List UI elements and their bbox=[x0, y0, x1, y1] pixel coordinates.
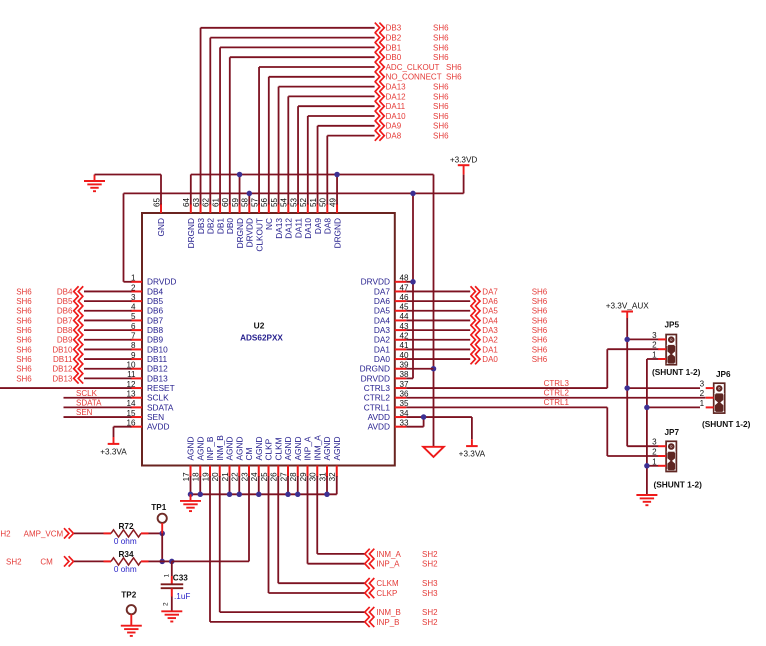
svg-text:DB2: DB2 bbox=[386, 34, 402, 43]
wire net CLKP horizontal run bbox=[269, 592, 365, 594]
svg-text:SH6: SH6 bbox=[433, 92, 449, 101]
wire AGND pin 18 drop bbox=[199, 476, 201, 494]
wire net DA11 vertical riser bbox=[297, 106, 299, 204]
svg-text:CM: CM bbox=[244, 448, 254, 461]
pin 19 (INP_B) bottom side bbox=[209, 466, 211, 478]
wire AGND pin 24 drop bbox=[258, 476, 260, 494]
svg-text:DA5: DA5 bbox=[374, 306, 391, 316]
node CLKP off-page chevron bbox=[365, 588, 375, 598]
ground (earth symbol below C33) bbox=[161, 610, 182, 612]
wire net DB2 vertical riser bbox=[209, 38, 211, 205]
wire net DB9 bbox=[84, 339, 132, 341]
svg-text:AMP_VCM: AMP_VCM bbox=[24, 529, 64, 538]
pin 9 (DB11) left side bbox=[131, 358, 143, 360]
svg-text:3: 3 bbox=[700, 380, 705, 389]
node NO_CONNECT off-page chevron bbox=[375, 72, 385, 82]
node DRVDD junction at rail bbox=[410, 191, 416, 197]
wire net DB10 bbox=[84, 348, 132, 350]
svg-text:25: 25 bbox=[260, 472, 269, 482]
node DRGND junction at pin49 bbox=[334, 172, 340, 178]
svg-text:DB0: DB0 bbox=[225, 218, 235, 235]
wire CM vertical to pin 23 bbox=[248, 476, 250, 561]
svg-text:2: 2 bbox=[652, 341, 657, 350]
svg-text:DA9: DA9 bbox=[386, 122, 402, 131]
ground (earth symbol below JP7) bbox=[636, 494, 657, 496]
capacitor C33 bbox=[171, 561, 173, 576]
svg-text:51: 51 bbox=[309, 197, 318, 207]
wire net CLKP vertical drop bbox=[268, 476, 270, 593]
wire net INM_A horizontal run bbox=[317, 553, 364, 555]
wire net DB11 bbox=[84, 358, 132, 360]
svg-text:R34: R34 bbox=[118, 550, 133, 559]
wire CM to pin 23 bbox=[172, 560, 249, 562]
svg-text:JP5: JP5 bbox=[665, 321, 680, 330]
pin 2 (DB4) left side bbox=[131, 290, 143, 292]
svg-text:AVDD: AVDD bbox=[147, 422, 169, 432]
pin 60 (DB0) top side bbox=[229, 204, 231, 214]
svg-text:DA13: DA13 bbox=[274, 218, 284, 239]
svg-text:SDATA: SDATA bbox=[76, 398, 102, 407]
resistor R72 bbox=[104, 532, 112, 534]
svg-text:DA3: DA3 bbox=[374, 325, 391, 335]
pin 58 (DRVDD) top side bbox=[248, 204, 250, 214]
svg-text:55: 55 bbox=[270, 197, 279, 207]
wire R34 to CM node bbox=[149, 560, 163, 562]
pin 25 (CLKP) bottom side bbox=[268, 466, 270, 478]
pin 32 (AGND) bottom side bbox=[336, 466, 338, 478]
node ADC_CLKOUT off-page chevron bbox=[375, 62, 385, 72]
svg-text:INP_B: INP_B bbox=[205, 436, 215, 460]
node DA5 off-page chevron bbox=[471, 306, 481, 316]
svg-text:DB0: DB0 bbox=[386, 53, 402, 62]
svg-text:DB6: DB6 bbox=[57, 307, 73, 316]
svg-text:CLKOUT: CLKOUT bbox=[254, 218, 264, 252]
svg-text:DB5: DB5 bbox=[57, 297, 73, 306]
svg-text:DRVDD: DRVDD bbox=[245, 218, 255, 247]
pin 39 (DRGND) right side bbox=[395, 368, 407, 370]
wire AVDD pin16 vertical to +3.3VA bbox=[113, 427, 115, 437]
svg-text:DB5: DB5 bbox=[147, 296, 164, 306]
power +3.3VA symbol (right) bbox=[471, 439, 473, 446]
pin 42 (DA2) right side bbox=[395, 339, 407, 341]
svg-text:CM: CM bbox=[40, 557, 53, 566]
svg-text:.1uF: .1uF bbox=[174, 592, 190, 601]
svg-text:DB6: DB6 bbox=[147, 306, 164, 316]
svg-text:SH2: SH2 bbox=[0, 529, 11, 538]
svg-text:AGND: AGND bbox=[293, 437, 303, 461]
svg-text:SH6: SH6 bbox=[433, 53, 449, 62]
svg-text:SH6: SH6 bbox=[433, 102, 449, 111]
svg-text:DA4: DA4 bbox=[482, 316, 498, 325]
pin 64 (DRGND) top side bbox=[190, 204, 192, 214]
wire DRGND top rail bbox=[191, 174, 434, 176]
svg-text:DB12: DB12 bbox=[147, 364, 168, 374]
pin 2 of JP5 bbox=[658, 348, 666, 350]
wire net DB5 bbox=[84, 300, 132, 302]
svg-text:AGND: AGND bbox=[283, 437, 293, 461]
svg-text:DA4: DA4 bbox=[374, 315, 391, 325]
svg-text:5: 5 bbox=[131, 312, 136, 321]
svg-text:DB4: DB4 bbox=[57, 287, 73, 296]
svg-text:DA12: DA12 bbox=[386, 92, 407, 101]
pin 29 (INP_A) bottom side bbox=[307, 466, 309, 478]
wire GND vertical JP5-JP7 bbox=[646, 359, 648, 494]
pin 1 of JP7 bbox=[658, 465, 666, 467]
svg-text:SH6: SH6 bbox=[532, 287, 548, 296]
node DRGND junction at pin59 bbox=[237, 172, 243, 178]
svg-text:JP6: JP6 bbox=[716, 370, 731, 379]
svg-text:SH6: SH6 bbox=[532, 316, 548, 325]
svg-text:INP_B: INP_B bbox=[376, 618, 399, 627]
wire net INP_A vertical drop bbox=[307, 476, 309, 564]
svg-text:0 ohm: 0 ohm bbox=[114, 537, 137, 546]
wire net DA3 bbox=[406, 329, 470, 331]
svg-text:(SHUNT 1-2): (SHUNT 1-2) bbox=[702, 419, 751, 429]
pin 41 (DA1) right side bbox=[395, 348, 407, 350]
pin 35 (CTRL1) right side bbox=[395, 406, 407, 408]
wire GND from JP5 pin1 bbox=[647, 358, 659, 360]
svg-text:17: 17 bbox=[182, 472, 191, 482]
svg-text:DA11: DA11 bbox=[386, 102, 406, 111]
svg-text:CLKP: CLKP bbox=[376, 589, 397, 598]
node DA13 off-page chevron bbox=[375, 81, 385, 91]
svg-text:SH6: SH6 bbox=[433, 112, 449, 121]
node DB7 off-page chevron (left) bbox=[74, 315, 84, 325]
svg-text:23: 23 bbox=[240, 472, 249, 482]
wire net SDATA (pin 14) bbox=[64, 406, 132, 408]
wire net DA12 horizontal run bbox=[288, 95, 374, 97]
node AMP_VCM chevron bbox=[64, 528, 74, 538]
svg-text:SH6: SH6 bbox=[446, 63, 462, 72]
wire net CLKM vertical drop bbox=[277, 476, 279, 583]
svg-text:SH6: SH6 bbox=[16, 316, 32, 325]
pin 65 (GND) top side bbox=[160, 204, 162, 214]
wire net INP_B vertical drop bbox=[209, 476, 211, 622]
wire net CTRL3 (pin 37) bbox=[406, 387, 607, 389]
ground (triangle symbol below DRGND vertical) bbox=[423, 447, 444, 457]
svg-text:TP1: TP1 bbox=[151, 503, 166, 512]
wire net INM_A vertical drop bbox=[316, 476, 318, 554]
svg-text:DB12: DB12 bbox=[52, 365, 73, 374]
node DA1 off-page chevron bbox=[471, 344, 481, 354]
wire net DA2 bbox=[406, 339, 470, 341]
pin 1 of JP5 bbox=[658, 358, 666, 360]
svg-text:INM_B: INM_B bbox=[376, 608, 400, 617]
wire CM to R34 bbox=[74, 560, 104, 562]
node DA0 off-page chevron bbox=[471, 354, 481, 364]
svg-text:AGND: AGND bbox=[322, 437, 332, 461]
node GND junction at JP6 pin1 bbox=[644, 405, 650, 411]
svg-text:R72: R72 bbox=[118, 522, 133, 531]
wire AGND pin 21 drop bbox=[229, 476, 231, 494]
pin 2 of JP7 bbox=[658, 455, 666, 457]
svg-text:1: 1 bbox=[652, 457, 657, 466]
wire net SEN (pin 15) bbox=[64, 416, 132, 418]
node DA11 off-page chevron bbox=[375, 101, 385, 111]
wire net INM_B horizontal run bbox=[220, 611, 365, 613]
wire net DA4 bbox=[406, 319, 470, 321]
node CLKM off-page chevron bbox=[365, 578, 375, 588]
pin 3 of JP7 bbox=[658, 445, 666, 447]
wire net NO_CONNECT horizontal run bbox=[269, 76, 375, 78]
node DA7 off-page chevron bbox=[471, 286, 481, 296]
svg-text:DA8: DA8 bbox=[386, 132, 402, 141]
wire net DB4 bbox=[84, 290, 132, 292]
node AVDD junction at pin34 bbox=[421, 414, 427, 420]
svg-text:62: 62 bbox=[202, 197, 211, 207]
wire +3.3V_AUX to JP5 pin3 bbox=[627, 338, 658, 340]
wire net INM_B vertical drop bbox=[219, 476, 221, 612]
wire net DB6 bbox=[84, 310, 132, 312]
node DA4 off-page chevron bbox=[471, 315, 481, 325]
svg-text:2: 2 bbox=[652, 448, 657, 457]
svg-text:NC: NC bbox=[264, 218, 274, 230]
resistor R34 bbox=[104, 560, 112, 562]
svg-text:CLKM: CLKM bbox=[376, 579, 399, 588]
svg-text:DA6: DA6 bbox=[482, 297, 498, 306]
svg-text:+3.3VA: +3.3VA bbox=[100, 448, 127, 457]
pin 3 (DB5) left side bbox=[131, 300, 143, 302]
node INM_B off-page chevron bbox=[365, 607, 375, 617]
node INM_A off-page chevron bbox=[365, 549, 375, 559]
svg-text:DA6: DA6 bbox=[374, 296, 391, 306]
svg-text:DB4: DB4 bbox=[147, 286, 164, 296]
node DA2 off-page chevron bbox=[471, 335, 481, 345]
pin 43 (DA3) right side bbox=[395, 329, 407, 331]
svg-text:1: 1 bbox=[652, 351, 657, 360]
svg-text:+3.3V_AUX: +3.3V_AUX bbox=[606, 301, 650, 310]
svg-text:DA2: DA2 bbox=[374, 335, 391, 345]
svg-text:26: 26 bbox=[270, 472, 279, 482]
svg-text:DA13: DA13 bbox=[386, 83, 407, 92]
svg-text:2: 2 bbox=[131, 283, 136, 292]
svg-text:DA1: DA1 bbox=[374, 344, 391, 354]
svg-text:18: 18 bbox=[192, 472, 201, 482]
svg-text:INP_A: INP_A bbox=[376, 560, 400, 569]
wire net INP_B horizontal run bbox=[210, 621, 365, 623]
svg-text:CLKP: CLKP bbox=[264, 438, 274, 460]
wire pin48 DRVDD stub extension bbox=[406, 281, 413, 283]
svg-text:SH6: SH6 bbox=[532, 336, 548, 345]
svg-text:AGND: AGND bbox=[225, 437, 235, 461]
svg-text:SH6: SH6 bbox=[16, 307, 32, 316]
wire CTRL1 vertical to JP7 pin2 bbox=[606, 407, 608, 456]
svg-text:DA7: DA7 bbox=[374, 286, 391, 296]
wire AGND pin 31 drop bbox=[326, 476, 328, 494]
svg-text:RESET: RESET bbox=[147, 383, 175, 393]
wire GND to JP6 pin1 bbox=[647, 406, 700, 408]
pin 10 (DB12) left side bbox=[131, 368, 143, 370]
svg-text:C33: C33 bbox=[173, 573, 188, 582]
node +3.3V_AUX junction at JP6 pin3 bbox=[624, 385, 630, 391]
svg-text:SH6: SH6 bbox=[16, 326, 32, 335]
pin 47 (DA7) right side bbox=[395, 290, 407, 292]
svg-text:SH3: SH3 bbox=[422, 579, 438, 588]
connector JP6 3-pin jumper bbox=[714, 383, 725, 413]
power +3.3VA symbol (left) bbox=[113, 437, 115, 444]
wire TP1 node down to CM net bbox=[161, 533, 163, 561]
pin 61 (DB1) top side bbox=[219, 204, 221, 214]
wire AVDD pin16 horizontal bbox=[114, 426, 132, 428]
svg-text:ADC_CLKOUT: ADC_CLKOUT bbox=[386, 63, 440, 72]
svg-text:DB3: DB3 bbox=[196, 218, 206, 235]
svg-text:AGND: AGND bbox=[186, 437, 196, 461]
wire net DB0 horizontal run bbox=[230, 56, 375, 58]
node AGND junction pin 18 bbox=[198, 492, 204, 498]
pin 16 (AVDD) left side bbox=[131, 426, 143, 428]
wire net DA13 horizontal run bbox=[279, 86, 375, 88]
wire net ADC_CLKOUT vertical riser bbox=[258, 67, 260, 205]
svg-text:AGND: AGND bbox=[195, 437, 205, 461]
svg-text:3: 3 bbox=[652, 331, 657, 340]
wire DRGND right vertical down to ground bbox=[433, 175, 435, 447]
svg-text:DA12: DA12 bbox=[284, 218, 294, 239]
wire +3.3VD rail (DRVDD) bbox=[124, 192, 464, 194]
svg-text:DB13: DB13 bbox=[52, 374, 73, 383]
pin 11 (DB13) left side bbox=[131, 377, 143, 379]
pin 30 (INM_A) bottom side bbox=[316, 466, 318, 478]
node INP_A off-page chevron bbox=[365, 559, 375, 569]
connector JP7 3-pin jumper bbox=[666, 441, 676, 471]
svg-text:DA1: DA1 bbox=[482, 345, 498, 354]
svg-text:SH6: SH6 bbox=[433, 83, 449, 92]
pin 3 of JP6 bbox=[706, 387, 714, 389]
svg-text:+3.3VD: +3.3VD bbox=[450, 156, 478, 165]
pin 53 (DA11) top side bbox=[297, 204, 299, 214]
node DB12 off-page chevron (left) bbox=[74, 364, 84, 374]
svg-text:SH6: SH6 bbox=[532, 345, 548, 354]
svg-text:50: 50 bbox=[319, 197, 328, 207]
pin 38 (DRVDD) right side bbox=[395, 377, 407, 379]
svg-text:DA10: DA10 bbox=[386, 112, 407, 121]
pin 54 (DA12) top side bbox=[287, 204, 289, 214]
node AGND junction pin 31 bbox=[324, 492, 330, 498]
wire DRGND pin64 riser bbox=[190, 175, 192, 205]
svg-text:2: 2 bbox=[162, 602, 169, 606]
pin 44 (DA4) right side bbox=[395, 319, 407, 321]
wire net DB12 bbox=[84, 368, 132, 370]
wire net DB8 bbox=[84, 329, 132, 331]
svg-text:+3.3VA: +3.3VA bbox=[459, 449, 486, 458]
svg-text:SH6: SH6 bbox=[16, 287, 32, 296]
svg-text:(SHUNT 1-2): (SHUNT 1-2) bbox=[652, 367, 701, 377]
wire DRVDD pin58 riser bbox=[248, 193, 250, 204]
node DB6 off-page chevron (left) bbox=[74, 306, 84, 316]
node DA6 off-page chevron bbox=[471, 296, 481, 306]
svg-text:SH6: SH6 bbox=[433, 24, 449, 33]
wire net DA7 bbox=[406, 290, 470, 292]
wire net DB7 bbox=[84, 319, 132, 321]
pin 33 (AVDD) right side bbox=[395, 426, 407, 428]
node AGND junction pin 24 bbox=[256, 492, 262, 498]
svg-text:INM_B: INM_B bbox=[215, 435, 225, 461]
wire net NO_CONNECT vertical riser bbox=[268, 77, 270, 205]
wire AGND pin 17 drop bbox=[190, 476, 192, 494]
node junction CM/TP1 branch bbox=[159, 559, 165, 565]
svg-text:54: 54 bbox=[280, 197, 289, 207]
svg-text:8: 8 bbox=[131, 341, 136, 350]
pin 4 (DB6) left side bbox=[131, 310, 143, 312]
pin 40 (DA0) right side bbox=[395, 358, 407, 360]
svg-text:DRVDD: DRVDD bbox=[361, 373, 390, 383]
node DRGND junction at pin39 wire bbox=[431, 366, 437, 372]
pin 1 of JP6 bbox=[706, 406, 714, 408]
pin 12 (RESET) left side bbox=[131, 387, 143, 389]
svg-text:AVDD: AVDD bbox=[368, 412, 390, 422]
svg-text:49: 49 bbox=[328, 197, 337, 207]
ground (earth symbol below TP2) bbox=[121, 625, 142, 627]
node DRVDD junction at pin48 bbox=[410, 279, 416, 285]
svg-text:60: 60 bbox=[221, 197, 230, 207]
pin 13 (SCLK) left side bbox=[131, 397, 143, 399]
svg-text:INP_A: INP_A bbox=[303, 436, 313, 460]
svg-text:SH6: SH6 bbox=[433, 122, 449, 131]
svg-text:DRGND: DRGND bbox=[235, 218, 245, 248]
svg-text:DB9: DB9 bbox=[57, 336, 73, 345]
svg-text:3: 3 bbox=[652, 438, 657, 447]
svg-text:INM_A: INM_A bbox=[312, 435, 322, 461]
pin 55 (DA13) top side bbox=[278, 204, 280, 214]
svg-text:DA2: DA2 bbox=[482, 336, 498, 345]
svg-text:1: 1 bbox=[131, 274, 136, 283]
node DA3 off-page chevron bbox=[471, 325, 481, 335]
wire net DA10 vertical riser bbox=[307, 116, 309, 205]
svg-text:SH2: SH2 bbox=[422, 560, 438, 569]
wire DRGND pin49 riser bbox=[336, 175, 338, 205]
svg-text:22: 22 bbox=[231, 472, 240, 482]
pin 7 (DB9) left side bbox=[131, 339, 143, 341]
wire GND pin65 horizontal run bbox=[95, 174, 162, 176]
svg-text:CTRL1: CTRL1 bbox=[544, 398, 570, 407]
pin 18 (AGND) bottom side bbox=[199, 466, 201, 478]
ground (top-left earth symbol) bbox=[94, 175, 96, 181]
pin 27 (AGND) bottom side bbox=[287, 466, 289, 478]
pin 49 (DRGND) top side bbox=[336, 204, 338, 214]
node DB5 off-page chevron (left) bbox=[74, 296, 84, 306]
svg-text:SH6: SH6 bbox=[532, 307, 548, 316]
svg-text:SH6: SH6 bbox=[16, 374, 32, 383]
svg-text:DB11: DB11 bbox=[147, 354, 168, 364]
svg-text:DB11: DB11 bbox=[53, 355, 73, 364]
svg-text:SH2: SH2 bbox=[422, 550, 438, 559]
wire AGND pin 28 drop bbox=[297, 476, 299, 494]
svg-text:SH6: SH6 bbox=[433, 34, 449, 43]
pin 17 (AGND) bottom side bbox=[190, 466, 192, 478]
svg-text:61: 61 bbox=[211, 197, 220, 207]
node DB13 off-page chevron (left) bbox=[74, 373, 84, 383]
pin 1 (DRVDD) left side bbox=[131, 281, 143, 283]
node AGND junction pin 28 bbox=[295, 492, 301, 498]
wire GND to JP7 pin1 bbox=[647, 465, 659, 467]
svg-text:64: 64 bbox=[182, 197, 191, 207]
pin 26 (CLKM) bottom side bbox=[277, 466, 279, 478]
svg-text:DRVDD: DRVDD bbox=[361, 277, 390, 287]
svg-text:27: 27 bbox=[279, 472, 288, 482]
node DA12 off-page chevron bbox=[375, 91, 385, 101]
wire AGND bus below chip bbox=[191, 493, 337, 495]
wire pin38 DRVDD horizontal bbox=[406, 377, 413, 379]
svg-text:SH6: SH6 bbox=[433, 43, 449, 52]
node AGND junction pin 22 bbox=[237, 492, 243, 498]
svg-text:AGND: AGND bbox=[234, 437, 244, 461]
svg-text:9: 9 bbox=[131, 351, 136, 360]
svg-text:DRGND: DRGND bbox=[186, 218, 196, 248]
pin 23 (CM) bottom side bbox=[248, 466, 250, 478]
svg-text:CLKM: CLKM bbox=[273, 437, 283, 460]
wire net CLKM horizontal run bbox=[278, 582, 364, 584]
pin 22 (AGND) bottom side bbox=[238, 466, 240, 478]
pin 20 (INM_B) bottom side bbox=[219, 466, 221, 478]
